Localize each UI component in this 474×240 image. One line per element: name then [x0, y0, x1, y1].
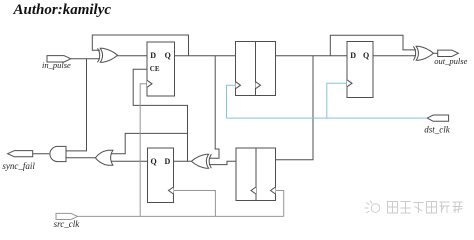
- svg-text:sync_fail: sync_fail: [2, 161, 35, 171]
- watermark sun icon: [371, 204, 380, 213]
- wire src_clk up to FF4 clock: [174, 191, 216, 217]
- svg-text:in_pulse: in_pulse: [42, 60, 71, 70]
- clock chevron FF4 (right edge, points left): [169, 187, 174, 194]
- wire xor U_xor2 output to out_pulse port: [433, 52, 438, 54]
- flip-flop FF1 (in_pulse toggle, D Q CE): [147, 42, 175, 96]
- watermark text glyph 2: [401, 202, 411, 214]
- svg-text:D: D: [350, 51, 356, 60]
- svg-text:CE: CE: [150, 65, 160, 73]
- wire or gate U_or output to and gate bottom input: [66, 157, 96, 159]
- port sync_fail: [8, 151, 33, 157]
- svg-text:dst_clk: dst_clk: [424, 124, 450, 134]
- clock chevron sync2 left FF: [251, 187, 256, 194]
- flip-flop sync pair U_sync2 (lower, mirrored): [236, 148, 276, 201]
- wire in_pulse to xor U_xor1 lower input: [71, 58, 100, 60]
- flip-flop FF3 (output stage, D Q): [347, 42, 373, 98]
- wire FF4 Q to or gate bottom input: [108, 160, 148, 162]
- xor gate U_xor2 (output pulse): [413, 46, 433, 60]
- wire branch in_pulse down to and gate top input: [66, 59, 87, 151]
- watermark text glyph 4: [427, 202, 437, 214]
- wire net Q1 from FF1 to sync pair: [175, 55, 236, 57]
- clock chevron FF3: [347, 80, 352, 87]
- port dst_clk: [427, 115, 449, 121]
- watermark text glyph 3: [414, 203, 424, 214]
- svg-text:D: D: [165, 157, 171, 166]
- wire branch Q1 down to xor U_xor3 top input (with jog): [209, 56, 219, 159]
- svg-text:Q: Q: [151, 157, 157, 166]
- wire dst_clk rail: [227, 117, 428, 119]
- watermark text glyph 6: [453, 202, 463, 213]
- wire sync_fail port to and gate output: [33, 153, 50, 155]
- wire xor U_xor3 output to FF4 D: [174, 160, 192, 162]
- wire CE feedback net: FF1 CE to FF4 D row: [133, 69, 187, 161]
- wire dst_clk up to sync1 clock: [227, 85, 236, 118]
- svg-text:out_pulse: out_pulse: [434, 56, 467, 66]
- wire xor1 output to FF1 D: [117, 55, 147, 57]
- port out_pulse: [438, 50, 459, 56]
- svg-text:Q: Q: [363, 51, 369, 60]
- clock chevron sync2 right FF: [271, 187, 276, 194]
- xor gate U_xor1: [98, 48, 118, 62]
- wire xor U_xor1 top input feed: [92, 35, 188, 56]
- xor gate U_xor3 (points left): [191, 154, 211, 168]
- svg-text:D: D: [150, 51, 156, 60]
- clock chevron sync1 left FF: [236, 82, 241, 89]
- watermark text glyph 5: [440, 202, 450, 213]
- wire src_clk rail: [78, 215, 284, 217]
- wire branch down to lower sync pair D input: [276, 56, 314, 160]
- watermark text glyph 1: [388, 202, 398, 214]
- clock chevron sync1 right FF: [256, 82, 261, 89]
- wire src_clk up to sync2 clock: [276, 191, 284, 217]
- flip-flop sync pair U_sync1 (two FFs abutted): [236, 42, 276, 96]
- or gate U_or (points left): [95, 150, 113, 165]
- wire dst_clk up to FF3 clock: [327, 83, 347, 118]
- wire branch up over FF3 to xor U_xor2 top input: [330, 35, 416, 56]
- and gate U_and (points left): [50, 146, 66, 161]
- port in_pulse: [47, 56, 71, 62]
- wire xor U_xor3 bottom input to lower sync pair Q (jog): [209, 161, 236, 164]
- port src_clk: [56, 213, 78, 219]
- wire sync pair output to FF3 D: [276, 55, 348, 57]
- svg-text:Q: Q: [165, 51, 171, 60]
- svg-text:Author:kamilyc: Author:kamilyc: [13, 2, 112, 18]
- svg-text:src_clk: src_clk: [54, 219, 81, 229]
- flip-flop FF4 (feedback, Q D, mirrored): [148, 148, 174, 203]
- wire src_clk up to FF1 clock: [140, 84, 147, 217]
- clock chevron FF1: [147, 80, 152, 87]
- wire FF3 Q to xor U_xor2 bottom input: [373, 55, 416, 57]
- wire or gate top input feed: [110, 133, 188, 153]
